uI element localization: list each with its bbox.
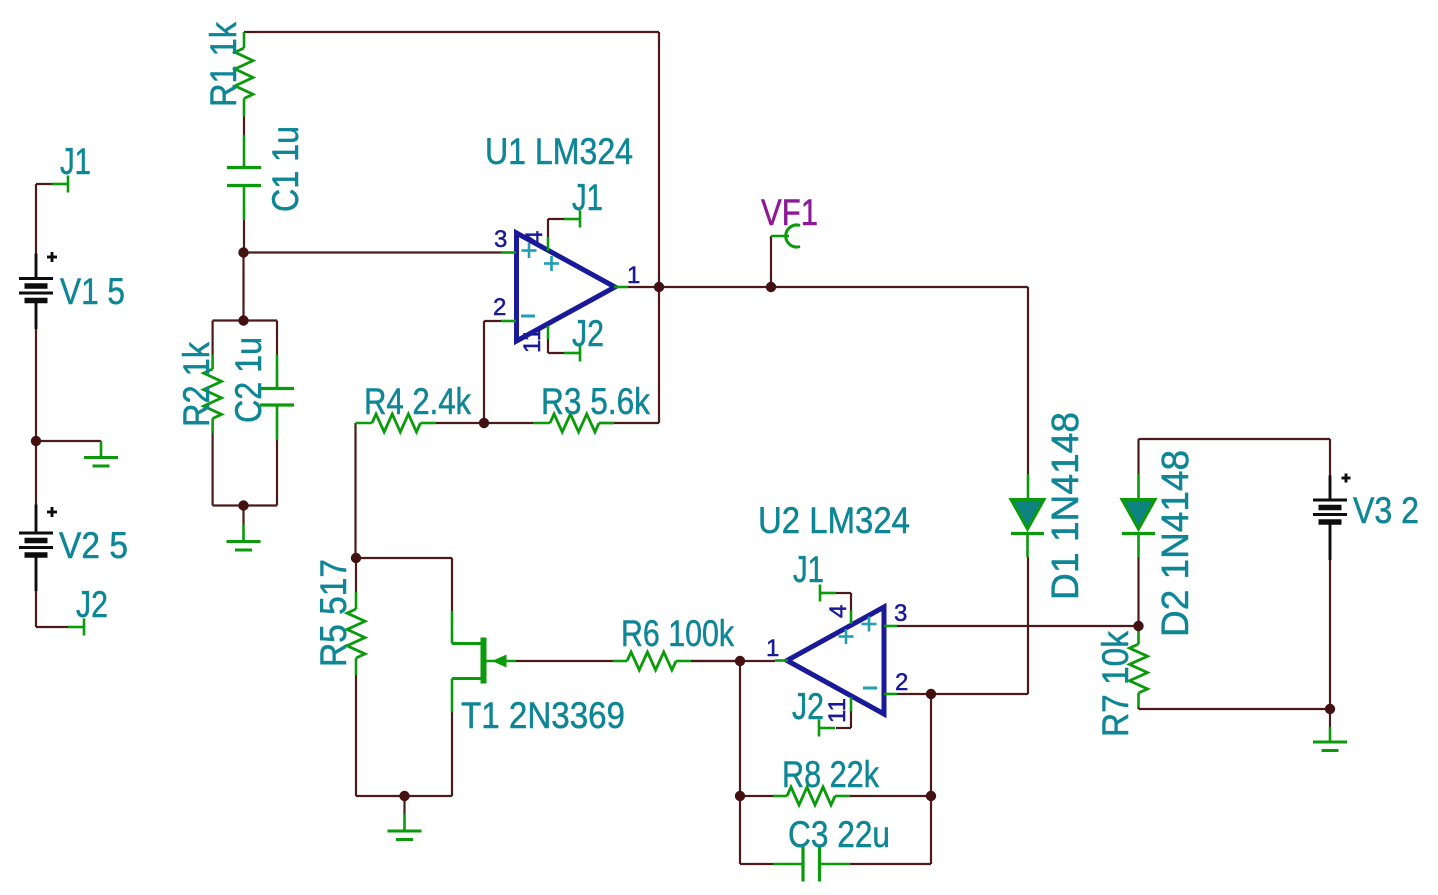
terminal J1 left (52, 176, 68, 193)
wire T1 bottom rail (356, 795, 452, 797)
label J2 of U1 (572, 313, 604, 354)
pin U1.4 stub (547, 237, 550, 251)
svg-text:V3 2: V3 2 (1353, 490, 1419, 531)
node R6/U2 pin1 (735, 656, 745, 666)
svg-text:D2 1N4148: D2 1N4148 (1155, 450, 1197, 637)
label U1 LM324 (485, 131, 633, 172)
op-amp U2 (787, 607, 884, 714)
svg-text:V1 5: V1 5 (60, 271, 125, 312)
svg-text:1: 1 (627, 262, 640, 289)
label R8 22k (782, 754, 879, 795)
label T1 2N3369 (461, 695, 625, 736)
wire U2 pin1 column (739, 661, 741, 796)
wire D1 bottom to pin2 (1027, 557, 1029, 694)
label R5 517 (313, 559, 354, 667)
terminal J1 of U2 (820, 585, 836, 602)
label V1 5 (60, 271, 125, 312)
svg-text:R8 22k: R8 22k (782, 754, 879, 795)
pin U1.11 stub (547, 326, 550, 339)
ground (84, 441, 118, 466)
wire top right rail (1139, 438, 1331, 440)
wire T1 source branch (451, 712, 453, 796)
svg-text:C2 1u: C2 1u (228, 337, 269, 423)
polarity + V3 (1342, 474, 1351, 483)
wire D2 top (1137, 439, 1139, 474)
label R7 10k (1095, 631, 1136, 737)
label C2 1u (228, 337, 269, 423)
node U1 output (654, 282, 664, 292)
resistor R7 (1130, 626, 1148, 707)
svg-text:R4 2.4k: R4 2.4k (364, 381, 471, 422)
svg-text:C3 22u: C3 22u (788, 814, 890, 855)
svg-text:C1 1u: C1 1u (265, 126, 306, 212)
wire U2-J2 hook (836, 711, 851, 728)
wire J1 hook left (36, 183, 54, 185)
resistor R3 (533, 414, 614, 432)
pin U2.11 stub (850, 697, 853, 711)
node C1/pin3 (238, 247, 248, 257)
svg-text:J2: J2 (76, 584, 108, 625)
svg-text:R6 100k: R6 100k (621, 613, 734, 654)
pin U2.1 stub (775, 659, 788, 662)
ground (227, 525, 261, 551)
svg-text:J2: J2 (572, 313, 604, 354)
wire pin3 row U1 (244, 251, 502, 253)
pin number U2.11 (824, 698, 851, 723)
wire R8 left lead (740, 795, 773, 797)
node T1 source rail (399, 791, 409, 801)
wire U1 output row (627, 286, 1028, 288)
wire box top rail (213, 319, 277, 321)
wire U1 pin2 stub (484, 320, 501, 322)
label R4 2.4k (364, 381, 471, 422)
op-amp U1 (517, 233, 616, 341)
label V3 2 (1353, 490, 1419, 531)
wire R3 right lead (599, 422, 659, 424)
node U2 pin2 (926, 689, 936, 699)
battery V3 (1313, 476, 1347, 561)
svg-text:D1 1N4148: D1 1N4148 (1045, 412, 1087, 600)
mark U1 + input (522, 243, 537, 258)
terminal J2 left (68, 619, 84, 636)
wire top feedback rail (244, 31, 659, 33)
label D2 1N4148 (1155, 450, 1197, 637)
node D2/R7 (1133, 621, 1143, 631)
probe VF1 (771, 225, 800, 247)
wire box bottom rail (213, 504, 277, 506)
label R3 5.6k (541, 381, 650, 422)
label J2 left (76, 584, 108, 625)
wire VF1 riser (770, 236, 772, 287)
node box top (238, 315, 248, 325)
svg-text:11: 11 (519, 328, 546, 353)
node R4/R3 (479, 418, 489, 428)
wire box right top (276, 321, 278, 355)
svg-text:R2 1k: R2 1k (176, 342, 217, 427)
pin U1.2 stub (501, 320, 516, 323)
pin U1.1 stub (614, 286, 628, 289)
resistor R2 (204, 355, 222, 434)
wire V2 bottom (35, 591, 37, 627)
mark U2 - input (863, 687, 877, 690)
wire U2-J1 hook (836, 593, 851, 611)
resistor R8 (773, 787, 850, 805)
resistor R5 (347, 592, 365, 675)
label R6 100k (621, 613, 734, 654)
polarity + V1 (47, 252, 57, 262)
transistor T1 (452, 611, 516, 712)
pin number U1.1 (627, 262, 640, 289)
wire R8-pin2 vertical (930, 694, 932, 796)
ground (388, 814, 422, 840)
pin number U1.4 (521, 231, 548, 244)
node V3 bottom (1325, 704, 1335, 714)
mark U2 + input (862, 617, 877, 632)
label U2 LM324 (758, 500, 910, 541)
label V2 5 (59, 525, 128, 566)
wire V3 top (1329, 439, 1331, 476)
capacitor C3 (773, 847, 850, 882)
wire U1-J2 hook (548, 339, 565, 353)
svg-text:3: 3 (494, 226, 507, 253)
wire V1 bottom (35, 329, 37, 441)
label D1 1N4148 (1045, 412, 1087, 600)
pin U2.3 stub (884, 625, 897, 628)
capacitor C1 (227, 135, 261, 220)
wire V1 top (35, 184, 37, 254)
svg-text:U1 LM324: U1 LM324 (485, 131, 633, 172)
svg-text:11: 11 (824, 698, 851, 723)
mark U2 + power (839, 629, 854, 644)
battery V2 (19, 505, 53, 592)
ground (1313, 727, 1347, 751)
wire R7 bottom corner (1137, 706, 1139, 709)
label C3 22u (788, 814, 890, 855)
pin number U1.11 (519, 328, 546, 353)
wire box left bottom (212, 434, 214, 506)
wire U1 pin2 vertical (483, 321, 485, 423)
pin number U1.3 (494, 226, 507, 253)
resistor R1 (235, 32, 253, 117)
battery V1 (19, 254, 53, 330)
label J1 of U2 (793, 549, 824, 590)
terminal J2 of U1 (564, 345, 580, 362)
wire R8 right lead (850, 795, 931, 797)
wire mid ground branch (36, 440, 101, 442)
wire U2 pin3 row (897, 625, 1139, 627)
svg-text:1: 1 (766, 635, 779, 662)
node R5 top (351, 553, 361, 563)
wire ground stub under box (242, 506, 244, 525)
wire V2 top (35, 441, 37, 505)
svg-text:VF1: VF1 (761, 192, 818, 233)
mark U1 - input (521, 315, 535, 318)
pin number U2.4 (825, 605, 852, 618)
label J2 of U2 (792, 686, 824, 727)
svg-text:J1: J1 (793, 549, 824, 590)
wire R5 top (355, 558, 357, 592)
wire box left top (212, 321, 214, 355)
wire D1 top (1027, 287, 1029, 474)
node R8 left (735, 791, 745, 801)
wire U2 pin2 row (897, 693, 1028, 695)
wire box right bottom (276, 440, 278, 506)
wire ground stub bottom right (1329, 709, 1331, 727)
svg-text:R3 5.6k: R3 5.6k (541, 381, 650, 422)
pin number U1.2 (493, 294, 506, 321)
svg-text:J1: J1 (572, 177, 603, 218)
svg-text:4: 4 (825, 605, 852, 618)
mark U1 + power (544, 256, 559, 271)
wire V3 bottom (1329, 560, 1331, 709)
polarity + V2 (47, 507, 57, 517)
label R2 1k (176, 342, 217, 427)
pin U1.3 stub (501, 251, 516, 254)
resistor R6 (613, 652, 691, 670)
terminal J1 of U1 (564, 211, 580, 228)
label J1 of U1 (572, 177, 603, 218)
svg-text:U2 LM324: U2 LM324 (758, 500, 910, 541)
svg-text:R5 517: R5 517 (313, 559, 354, 667)
capacitor C2 (260, 355, 294, 441)
svg-text:J2: J2 (792, 686, 824, 727)
pin U2.2 stub (884, 693, 897, 696)
wire T1 gate to R6 (516, 660, 613, 662)
svg-text:4: 4 (521, 231, 548, 244)
wire R1-C1 link (243, 117, 245, 136)
label R1 1k (203, 22, 244, 107)
node R8 right (926, 791, 936, 801)
label C1 1u (265, 126, 306, 212)
wire bottom right rail (1139, 708, 1331, 710)
pin number U2.3 (894, 600, 907, 627)
svg-text:V2 5: V2 5 (59, 525, 128, 566)
wire R6 to U2 (691, 660, 775, 662)
wire pin3-to-box vertical (242, 253, 244, 321)
terminal J2 of U2 (819, 720, 835, 737)
wire right feedback vertical (658, 32, 660, 423)
wire T1 drain branch (356, 558, 452, 611)
wire D2 bottom (1137, 557, 1139, 626)
svg-text:R7 10k: R7 10k (1095, 631, 1136, 737)
wire R4-R3 row left (436, 422, 484, 424)
node battery mid (31, 436, 41, 446)
wire U1-J1 hook (548, 219, 565, 237)
svg-text:R1 1k: R1 1k (203, 22, 244, 107)
svg-text:T1 2N3369: T1 2N3369 (461, 695, 625, 736)
pin number U2.1 (766, 635, 779, 662)
wire R4 left corner vertical (354, 423, 356, 558)
wire R4-R3 row right (484, 422, 533, 424)
diode D1 (1011, 474, 1044, 557)
svg-text:2: 2 (493, 294, 506, 321)
node VF1 (766, 282, 776, 292)
svg-text:J1: J1 (60, 141, 91, 182)
label J1 left (60, 141, 91, 182)
wire C1 bottom (243, 220, 245, 253)
wire C3 right (850, 796, 931, 864)
svg-text:3: 3 (894, 600, 907, 627)
svg-text:2: 2 (895, 669, 908, 696)
diode D2 (1122, 474, 1155, 557)
resistor R4 (356, 414, 437, 432)
wire J2 hook left (36, 626, 69, 628)
wire R5 bottom (355, 675, 357, 796)
pin U2.4 stub (850, 611, 853, 625)
wire ground stub under T1 (403, 796, 405, 814)
wire C3 left (740, 796, 773, 864)
wire R6 gate maroon (691, 660, 740, 662)
node box bottom (238, 500, 248, 510)
label VF1 (761, 192, 818, 233)
pin number U2.2 (895, 669, 908, 696)
